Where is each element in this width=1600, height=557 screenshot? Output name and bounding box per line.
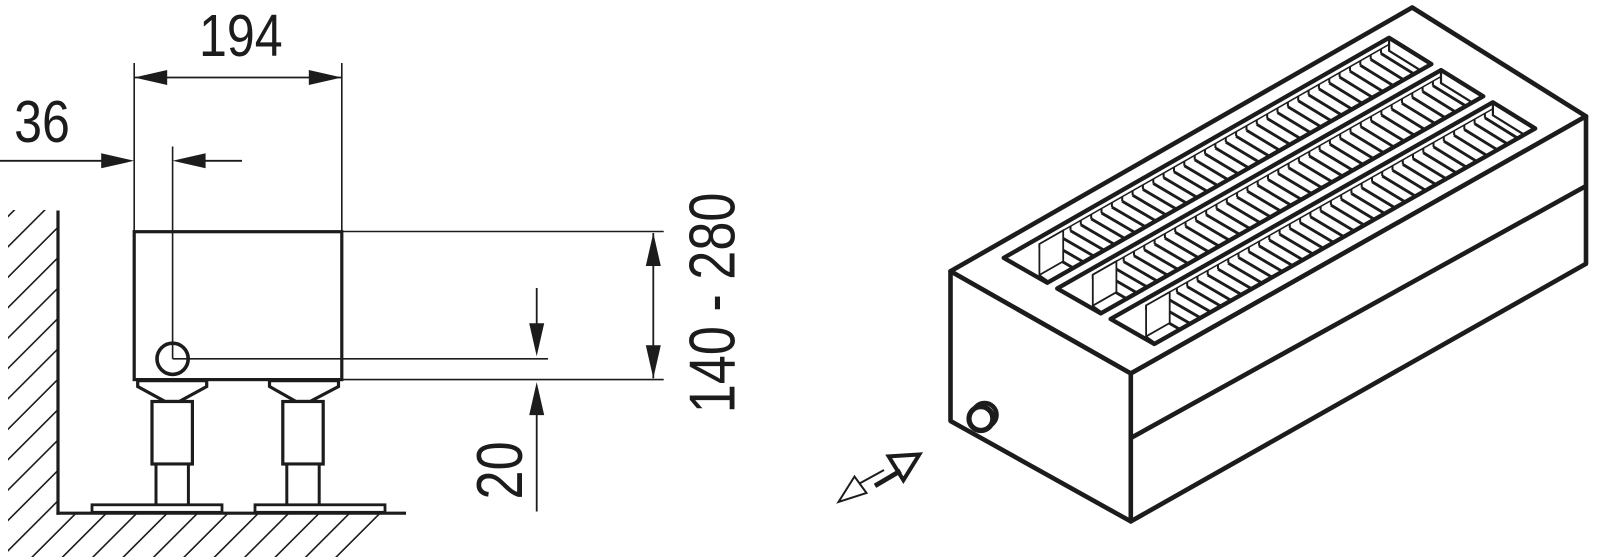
grille channel rim <box>1111 102 1536 344</box>
pipe vertical centerline <box>172 147 174 359</box>
dimension 20: lower line with arrow <box>536 410 538 512</box>
foot plate left <box>92 505 222 513</box>
floor line <box>56 512 406 515</box>
front face division line <box>1131 186 1586 438</box>
channel right end wall <box>1389 20 1457 77</box>
dimension 140-280: bottom extension line <box>342 379 664 381</box>
valve knob face ring <box>969 407 993 431</box>
direction arrow thin shaft <box>860 470 885 484</box>
grille fins <box>1433 86 1492 125</box>
channel right end wall <box>1441 52 1509 109</box>
leg bracket at x=172.2 <box>138 381 207 402</box>
channel far wall top edge <box>1156 134 1530 346</box>
dimension 36: right line with arrow <box>201 160 242 162</box>
convector box top face <box>951 8 1587 374</box>
direction arrow down-left head <box>839 477 867 503</box>
dimension 194: extension lines <box>133 63 135 232</box>
wall face line <box>56 211 59 515</box>
valve knob base ring <box>973 403 997 427</box>
pipe connection circle <box>157 343 188 374</box>
convector box front face <box>1131 116 1586 521</box>
dimension 140-280: dimension line with arrows <box>652 233 654 378</box>
channel right end wall <box>1493 85 1561 142</box>
direction arrow up-right head <box>889 455 920 481</box>
channel near wall bottom edge <box>1093 75 1443 274</box>
pipe horizontal centerline <box>173 358 548 360</box>
grille fins <box>1381 54 1440 93</box>
dimension 36: left line with arrow <box>0 160 106 162</box>
convector box left end face <box>951 271 1131 521</box>
grille fins <box>1485 118 1544 158</box>
svg-text:194: 194 <box>199 2 283 69</box>
dimension 140-280: top extension line <box>342 231 664 233</box>
leg lower column at x=303 <box>287 464 319 505</box>
svg-text:140 - 280: 140 - 280 <box>677 193 748 414</box>
direction arrow thick shaft <box>875 471 901 486</box>
radiator body <box>134 232 342 380</box>
grille channel rim <box>1057 70 1483 313</box>
leg column at x=303 <box>283 402 323 465</box>
leg bracket at x=303 <box>270 381 339 402</box>
dimension 194: dimension line with arrows <box>134 77 342 79</box>
svg-text:36: 36 <box>14 88 70 155</box>
channel far wall top edge <box>1103 102 1479 315</box>
channel near wall bottom edge <box>1039 43 1391 244</box>
grille channel rim <box>1004 38 1432 283</box>
svg-text:20: 20 <box>465 441 536 499</box>
leg lower column at x=172.2 <box>156 464 188 505</box>
foot plate right <box>255 505 385 513</box>
channel far wall top edge <box>1049 70 1426 285</box>
dimension 20: upper line with arrow <box>536 288 538 329</box>
channel near wall bottom edge <box>1146 108 1495 306</box>
leg column at x=172.2 <box>152 402 192 465</box>
